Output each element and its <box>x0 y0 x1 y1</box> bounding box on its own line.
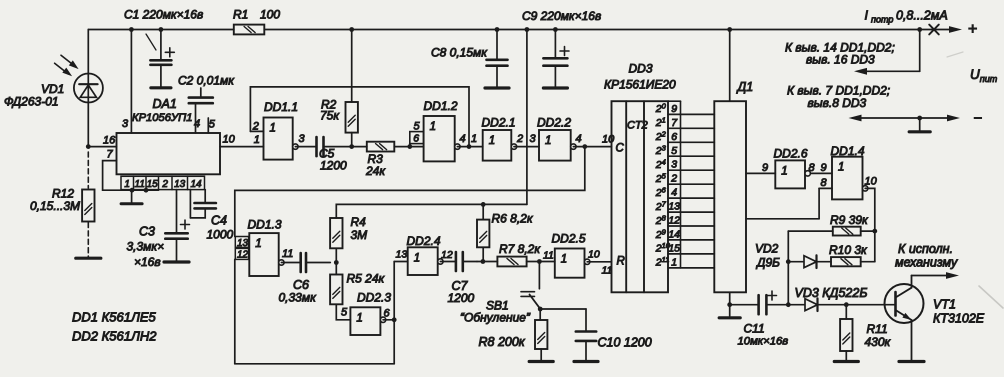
svg-text:8: 8 <box>809 162 816 174</box>
svg-text:13: 13 <box>237 238 249 249</box>
svg-text:12: 12 <box>441 249 453 261</box>
svg-text:I: I <box>865 9 869 23</box>
svg-text:1: 1 <box>781 165 787 177</box>
svg-text:1: 1 <box>489 135 495 147</box>
svg-text:11: 11 <box>135 179 145 190</box>
svg-text:4: 4 <box>460 133 466 145</box>
svg-text:выв. 16 DD3: выв. 16 DD3 <box>806 53 875 67</box>
svg-text:1: 1 <box>545 135 551 147</box>
svg-text:Д1: Д1 <box>736 80 754 94</box>
svg-text:C: C <box>616 143 625 155</box>
svg-text:VD3 КД522Б: VD3 КД522Б <box>795 286 868 300</box>
svg-text:C10 1200: C10 1200 <box>598 336 652 350</box>
svg-text:3,3мк×: 3,3мк× <box>127 240 165 254</box>
svg-text:100: 100 <box>260 7 280 21</box>
svg-text:R5 24к: R5 24к <box>347 272 386 286</box>
svg-text:1: 1 <box>255 238 261 250</box>
svg-text:10: 10 <box>588 249 600 261</box>
svg-text:R4: R4 <box>351 215 367 229</box>
svg-text:2: 2 <box>516 133 523 145</box>
svg-text:1: 1 <box>838 162 844 174</box>
svg-text:C11: C11 <box>744 322 765 336</box>
svg-text:DD2.5: DD2.5 <box>552 232 586 246</box>
svg-text:3M: 3M <box>351 228 368 242</box>
svg-text:1: 1 <box>356 312 362 324</box>
svg-text:R6 8,2к: R6 8,2к <box>492 212 534 226</box>
svg-text:3: 3 <box>530 133 537 145</box>
svg-text:1200: 1200 <box>320 159 347 173</box>
svg-text:КТ3102Е: КТ3102Е <box>933 312 985 326</box>
svg-text:5: 5 <box>414 121 421 133</box>
svg-text:8: 8 <box>821 177 828 189</box>
svg-text:×16в: ×16в <box>134 255 161 269</box>
svg-text:выв.8 DD3: выв.8 DD3 <box>808 96 867 110</box>
svg-text:1: 1 <box>671 256 677 268</box>
svg-text:C1 220мк×16в: C1 220мк×16в <box>124 8 203 22</box>
svg-text:10: 10 <box>602 134 615 146</box>
svg-text:Д9Б: Д9Б <box>755 256 780 270</box>
svg-text:R1: R1 <box>233 7 248 21</box>
svg-text:4: 4 <box>671 187 677 199</box>
svg-text:C3: C3 <box>139 225 155 239</box>
svg-text:9: 9 <box>671 103 677 115</box>
svg-text:5: 5 <box>341 307 348 319</box>
svg-text:C9 220мк×16в: C9 220мк×16в <box>522 9 601 23</box>
svg-text:3: 3 <box>671 159 677 171</box>
svg-text:0,8...2мА: 0,8...2мА <box>896 9 948 23</box>
svg-text:+: + <box>968 21 977 38</box>
svg-text:VD2: VD2 <box>755 242 779 256</box>
svg-text:24к: 24к <box>365 164 386 178</box>
svg-text:DD2.1: DD2.1 <box>482 116 516 130</box>
svg-text:14: 14 <box>190 179 202 190</box>
svg-text:12: 12 <box>237 250 249 261</box>
svg-text:4: 4 <box>194 118 200 130</box>
svg-text:6: 6 <box>384 308 391 320</box>
svg-text:КР1056УП1: КР1056УП1 <box>132 112 192 124</box>
svg-text:CT2: CT2 <box>627 120 648 132</box>
svg-text:11: 11 <box>282 248 293 260</box>
svg-text:3: 3 <box>299 133 306 145</box>
svg-text:R8 200к: R8 200к <box>479 335 526 349</box>
svg-text:DD1.2: DD1.2 <box>424 99 458 113</box>
svg-text:1000: 1000 <box>207 228 234 242</box>
svg-text:механизму: механизму <box>895 256 958 270</box>
svg-text:0,33мк: 0,33мк <box>279 291 318 305</box>
svg-text:75к: 75к <box>320 109 340 123</box>
svg-text:DD2.3: DD2.3 <box>357 291 391 305</box>
svg-text:3: 3 <box>122 118 129 130</box>
svg-text:2: 2 <box>161 179 168 190</box>
svg-text:R11: R11 <box>867 322 888 336</box>
svg-text:7: 7 <box>107 149 114 161</box>
svg-text:DD2 К561ЛН2: DD2 К561ЛН2 <box>72 329 157 344</box>
svg-text:15: 15 <box>147 179 159 190</box>
svg-text:ФД263-01: ФД263-01 <box>4 95 59 109</box>
svg-text:0,15...3M: 0,15...3M <box>30 199 80 213</box>
svg-text:6: 6 <box>671 131 677 143</box>
svg-text:12: 12 <box>668 215 680 227</box>
svg-text:2: 2 <box>252 120 259 132</box>
svg-text:5: 5 <box>671 145 677 157</box>
svg-text:DD3: DD3 <box>629 62 653 76</box>
svg-text:10: 10 <box>223 133 236 145</box>
svg-text:13: 13 <box>396 249 408 261</box>
svg-text:“Обнуление”: “Обнуление” <box>460 311 531 325</box>
svg-text:15: 15 <box>668 242 680 254</box>
svg-text:R7 8,2к: R7 8,2к <box>499 242 541 256</box>
svg-text:6: 6 <box>413 133 419 145</box>
svg-text:10: 10 <box>865 176 878 188</box>
svg-text:1: 1 <box>254 134 260 146</box>
svg-text:DD2.4: DD2.4 <box>407 234 441 248</box>
svg-text:5: 5 <box>209 119 216 131</box>
svg-text:DA1: DA1 <box>153 97 177 111</box>
svg-text:9: 9 <box>762 162 768 174</box>
svg-text:R9 39к: R9 39к <box>830 213 869 227</box>
svg-text:VT1: VT1 <box>933 298 956 312</box>
svg-text:4: 4 <box>576 133 582 145</box>
svg-text:16: 16 <box>103 134 116 146</box>
svg-text:C4: C4 <box>211 214 227 228</box>
svg-text:9: 9 <box>821 162 827 174</box>
svg-text:−: − <box>974 110 983 127</box>
svg-text:C8 0,15мк: C8 0,15мк <box>431 46 488 60</box>
svg-text:1: 1 <box>430 121 436 133</box>
svg-text:13: 13 <box>668 201 680 213</box>
svg-text:потр: потр <box>871 15 893 25</box>
svg-text:430к: 430к <box>865 335 892 349</box>
svg-text:1: 1 <box>414 252 420 264</box>
svg-text:R: R <box>617 256 625 268</box>
svg-text:R10 3к: R10 3к <box>829 243 868 257</box>
svg-text:11: 11 <box>543 250 554 262</box>
svg-text:1: 1 <box>471 133 477 145</box>
svg-text:1: 1 <box>124 179 130 190</box>
svg-text:1: 1 <box>270 123 276 135</box>
svg-text:C2 0,01мк: C2 0,01мк <box>178 74 235 88</box>
svg-text:DD1 К561ЛЕ5: DD1 К561ЛЕ5 <box>72 310 157 325</box>
svg-text:КР1561ИЕ20: КР1561ИЕ20 <box>604 78 676 92</box>
svg-text:DD2.6: DD2.6 <box>774 147 808 161</box>
svg-text:10мк×16в: 10мк×16в <box>738 336 789 348</box>
svg-text:DD1.1: DD1.1 <box>264 100 298 114</box>
svg-text:К исполн.: К исполн. <box>898 242 953 256</box>
svg-text:DD1.3: DD1.3 <box>248 218 282 232</box>
svg-text:1: 1 <box>561 254 567 266</box>
svg-text:13: 13 <box>174 179 186 190</box>
svg-text:1200: 1200 <box>448 291 475 305</box>
svg-text:2: 2 <box>670 173 677 185</box>
svg-text:DD2.2: DD2.2 <box>537 116 571 130</box>
svg-text:14: 14 <box>668 228 680 240</box>
